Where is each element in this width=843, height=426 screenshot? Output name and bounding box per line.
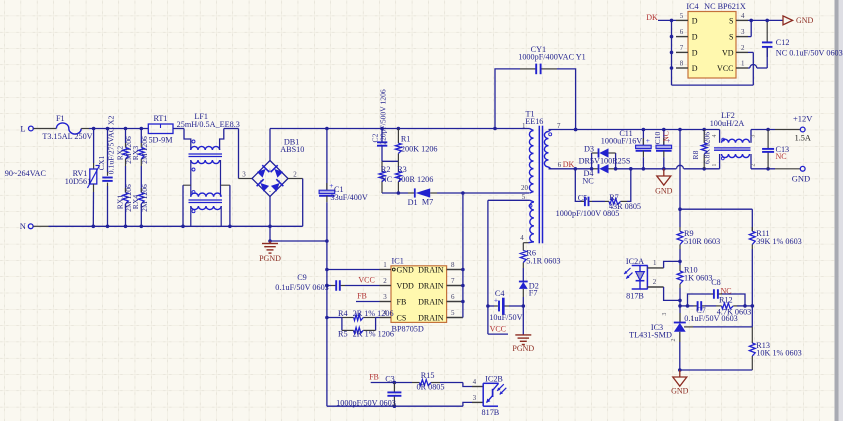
svg-text:EE16: EE16 [525, 117, 543, 126]
svg-text:3: 3 [383, 293, 387, 301]
svg-text:7: 7 [680, 44, 684, 52]
svg-text:1000pF/400VAC Y1: 1000pF/400VAC Y1 [518, 53, 586, 62]
svg-text:0.1uF/275VAC X2: 0.1uF/275VAC X2 [107, 116, 116, 175]
svg-text:L: L [20, 123, 25, 133]
svg-text:10D561: 10D561 [65, 177, 91, 186]
svg-text:1: 1 [522, 122, 526, 130]
svg-text:NC: NC [662, 131, 671, 142]
svg-text:1: 1 [691, 316, 694, 322]
svg-text:3: 3 [242, 170, 246, 178]
svg-text:2: 2 [671, 338, 677, 341]
svg-text:8: 8 [451, 261, 455, 269]
svg-text:5: 5 [680, 12, 684, 20]
svg-text:S: S [729, 16, 733, 25]
svg-text:1000pF/50V 0603: 1000pF/50V 0603 [336, 398, 396, 407]
svg-text:5: 5 [451, 309, 455, 317]
svg-text:1: 1 [741, 59, 745, 67]
svg-text:1: 1 [653, 259, 657, 267]
svg-text:S: S [729, 33, 733, 42]
svg-text:GND: GND [796, 16, 814, 25]
svg-text:RT1: RT1 [153, 114, 167, 123]
svg-text:6: 6 [558, 161, 562, 169]
svg-text:DRAIN: DRAIN [418, 265, 444, 274]
svg-text:3: 3 [662, 312, 668, 315]
svg-text:2: 2 [751, 163, 757, 166]
svg-text:DRAIN: DRAIN [418, 281, 444, 290]
svg-text:VD: VD [722, 48, 734, 57]
svg-text:BP8705D: BP8705D [392, 325, 424, 334]
svg-text:NC: NC [582, 177, 594, 186]
svg-text:2: 2 [383, 277, 387, 285]
svg-text:3: 3 [473, 394, 477, 402]
svg-text:F7: F7 [529, 289, 538, 298]
svg-text:7: 7 [451, 277, 455, 285]
svg-text:817B: 817B [626, 291, 644, 300]
svg-text:33uF/400V: 33uF/400V [331, 193, 368, 202]
svg-text:IC1: IC1 [392, 257, 404, 266]
svg-text:VCC: VCC [490, 325, 506, 334]
svg-text:C12: C12 [776, 38, 790, 47]
svg-text:+: + [329, 181, 333, 190]
svg-text:DK: DK [646, 13, 658, 22]
svg-text:90~264VAC: 90~264VAC [5, 169, 47, 178]
svg-text:R7: R7 [609, 193, 619, 202]
svg-text:TL431-SMD: TL431-SMD [629, 331, 672, 340]
svg-text:817B: 817B [482, 408, 500, 417]
svg-text:D1: D1 [408, 198, 418, 207]
svg-text:DK: DK [563, 160, 575, 169]
svg-text:1: 1 [383, 261, 387, 269]
svg-text:510R 0603: 510R 0603 [684, 237, 720, 246]
svg-text:FB: FB [369, 373, 379, 382]
svg-text:0R 0805: 0R 0805 [417, 382, 445, 391]
svg-text:1000uF/16V: 1000uF/16V [601, 137, 642, 146]
svg-text:RX4: RX4 [131, 195, 140, 210]
svg-text:F1: F1 [56, 114, 65, 123]
svg-text:N: N [20, 221, 26, 231]
svg-text:C3: C3 [385, 375, 395, 384]
svg-text:C10: C10 [653, 131, 662, 144]
svg-text:1K 0603: 1K 0603 [684, 274, 712, 283]
svg-text:DRAIN: DRAIN [418, 297, 444, 306]
svg-text:3: 3 [751, 134, 757, 137]
svg-text:R8: R8 [691, 150, 700, 159]
svg-text:CX1: CX1 [97, 156, 106, 171]
svg-text:D: D [692, 48, 698, 57]
svg-text:IC2B: IC2B [485, 375, 503, 384]
svg-text:R1: R1 [401, 135, 411, 144]
svg-text:5D-9M: 5D-9M [148, 135, 173, 144]
svg-text:T3.15AL 250V: T3.15AL 250V [42, 132, 92, 141]
svg-text:GND: GND [671, 387, 689, 396]
svg-text:10uF/50V: 10uF/50V [489, 313, 522, 322]
svg-text:-: - [269, 189, 271, 196]
svg-text:FB: FB [397, 297, 407, 306]
svg-text:2: 2 [293, 170, 297, 178]
svg-text:NC BP621X: NC BP621X [704, 2, 746, 11]
svg-text:NC: NC [721, 286, 732, 295]
svg-text:4: 4 [712, 134, 718, 137]
svg-text:100R 1206: 100R 1206 [397, 175, 433, 184]
svg-text:39K 1% 0603: 39K 1% 0603 [756, 237, 801, 246]
svg-text:100uH/2A: 100uH/2A [710, 119, 745, 128]
svg-text:VCC: VCC [358, 276, 374, 285]
svg-text:4: 4 [473, 378, 477, 386]
svg-text:DRAIN: DRAIN [418, 313, 444, 322]
svg-text:GND: GND [397, 265, 415, 274]
svg-text:5: 5 [522, 193, 526, 201]
svg-text:DR5V100R25S: DR5V100R25S [579, 157, 631, 166]
svg-text:8: 8 [680, 59, 684, 67]
svg-text:ABS10: ABS10 [280, 145, 304, 154]
svg-text:+: + [268, 168, 272, 175]
svg-text:RX3: RX3 [131, 146, 140, 161]
svg-text:25mH/0.5A_EE8.3: 25mH/0.5A_EE8.3 [177, 120, 240, 129]
svg-text:1: 1 [712, 163, 718, 166]
svg-text:2M 1206: 2M 1206 [140, 184, 149, 212]
svg-text:2M 1206: 2M 1206 [140, 136, 149, 164]
svg-text:1.5A: 1.5A [795, 134, 811, 143]
svg-text:20: 20 [521, 184, 529, 192]
svg-text:R5: R5 [338, 330, 348, 339]
svg-text:R4: R4 [338, 309, 348, 318]
svg-text:R3: R3 [397, 165, 407, 174]
svg-text:D3: D3 [584, 145, 594, 154]
svg-text:6: 6 [680, 28, 684, 36]
svg-text:~: ~ [277, 178, 281, 185]
svg-text:FB: FB [357, 292, 367, 301]
svg-text:D: D [692, 16, 698, 25]
svg-text:10K 1% 0603: 10K 1% 0603 [756, 349, 801, 358]
svg-text:R15: R15 [421, 371, 435, 380]
svg-text:NC: NC [381, 175, 393, 184]
svg-text:GND: GND [655, 187, 673, 196]
svg-text:R2: R2 [381, 165, 391, 174]
svg-text:4: 4 [520, 234, 524, 242]
svg-text:VCC: VCC [717, 64, 733, 73]
svg-text:2K 1% 1206: 2K 1% 1206 [353, 330, 394, 339]
svg-text:PGND: PGND [512, 344, 534, 353]
svg-text:0.1uF/50V 0603: 0.1uF/50V 0603 [275, 283, 329, 292]
svg-text:2R 1% 1206: 2R 1% 1206 [353, 309, 394, 318]
svg-text:D: D [692, 33, 698, 42]
svg-text:+: + [646, 136, 650, 145]
svg-text:4: 4 [741, 12, 745, 20]
svg-text:RX1: RX1 [115, 195, 124, 210]
svg-text:NC: NC [776, 152, 787, 161]
svg-text:M7: M7 [422, 198, 433, 207]
svg-text:RX2: RX2 [115, 146, 124, 161]
svg-text:+12V: +12V [793, 114, 813, 124]
svg-text:NC 0.1uF/50V 0603: NC 0.1uF/50V 0603 [776, 48, 843, 57]
svg-text:~: ~ [260, 178, 264, 185]
svg-text:+: + [494, 295, 498, 304]
svg-text:R12: R12 [719, 296, 733, 305]
svg-text:C8: C8 [711, 278, 721, 287]
svg-text:3: 3 [741, 28, 745, 36]
svg-text:7: 7 [557, 122, 561, 130]
svg-text:GND: GND [792, 174, 810, 184]
svg-text:2: 2 [653, 278, 657, 286]
svg-text:C9: C9 [297, 273, 307, 282]
svg-text:2: 2 [741, 44, 745, 52]
svg-text:IC4: IC4 [686, 2, 698, 11]
svg-text:C5: C5 [578, 194, 588, 203]
svg-text:1000pF/100V 0805: 1000pF/100V 0805 [556, 209, 620, 218]
svg-text:220pF/500V 1206: 220pF/500V 1206 [379, 89, 388, 145]
svg-text:VDD: VDD [397, 281, 415, 290]
svg-text:6: 6 [451, 293, 455, 301]
svg-text:CS: CS [397, 313, 407, 322]
svg-text:200K 1206: 200K 1206 [401, 145, 438, 154]
svg-text:5.1R 0603: 5.1R 0603 [526, 256, 560, 265]
svg-text:D: D [692, 64, 698, 73]
svg-text:6.8K 1206: 6.8K 1206 [703, 132, 712, 164]
svg-text:PGND: PGND [259, 254, 281, 263]
